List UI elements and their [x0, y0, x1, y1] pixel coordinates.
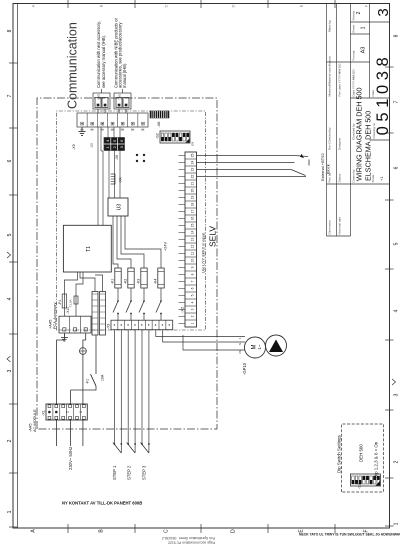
wires T1 to X9 — [97, 127, 99, 225]
terminal block X1 — [46, 404, 87, 420]
dip switch settings box — [342, 424, 384, 492]
comm connector 1 — [93, 93, 110, 109]
relay K4 coil — [158, 268, 164, 288]
comm connector 2 — [114, 93, 131, 109]
wires to external BT52 — [197, 155, 295, 157]
PCB accessory board boundary — [57, 111, 206, 330]
X8 pin header — [150, 111, 169, 118]
wires bars to T1 — [80, 272, 95, 292]
wires U3 to X6 — [108, 151, 110, 199]
supply wires — [56, 420, 58, 446]
cabinet AC-module boundary — [37, 98, 217, 429]
X1 pins — [48, 411, 51, 414]
solder dots — [136, 160, 138, 162]
fold marks — [7, 252, 11, 258]
ground at X10 — [63, 333, 65, 338]
ground at X9 pin1 — [81, 127, 83, 132]
terminal strip X9 — [77, 113, 148, 127]
title block grid — [326, 4, 328, 237]
relay K3 contact — [143, 288, 145, 300]
terminal strip X10 — [59, 316, 91, 333]
transformer T1 — [63, 225, 111, 272]
frame zone ticks left — [67, 524, 69, 533]
fuse F4 — [63, 288, 65, 316]
wires to pump GP10 — [156, 330, 245, 337]
DIP switch S2 — [160, 131, 190, 143]
step 1 contact — [114, 443, 116, 445]
svg-text:Page accommodation PC 9122: Page accommodation PC 9122 — [168, 541, 215, 545]
relay K3 coil — [141, 268, 147, 288]
BT52 switch B — [291, 170, 306, 176]
wires U3 to relay coils — [113, 216, 118, 268]
connector X6 — [104, 138, 125, 151]
dip switch S2 settings graphic — [351, 474, 381, 486]
BT52 switch A — [295, 156, 309, 157]
step control wires — [113, 330, 115, 444]
relay bar B — [100, 292, 106, 336]
breaker F1 10A — [70, 390, 72, 404]
svg-text:Pos Specification Sheet 0510: Pos Specification Sheet 051038-2 — [162, 536, 215, 540]
terminal strip X2 — [185, 152, 197, 327]
connector X4 — [111, 174, 115, 184]
module U3 — [108, 198, 128, 216]
relay K1 contact — [117, 288, 119, 300]
frame zone ticks top — [9, 526, 18, 528]
terminal strip X3 — [111, 320, 173, 330]
motor M 1~ — [245, 337, 266, 358]
step 2 contact — [127, 443, 129, 445]
wire X1 to X10 — [57, 333, 65, 404]
pump symbol — [266, 335, 287, 356]
relay bar A — [92, 292, 98, 336]
wires F4 region to T1 — [64, 272, 77, 288]
relay K4 contact — [160, 288, 162, 300]
wires X6 to X9 — [107, 127, 109, 138]
component F5 — [75, 288, 77, 316]
relay K2 coil — [128, 268, 134, 288]
PE symbol — [82, 355, 84, 405]
svg-text:NECK TATO UL TRWY IS TUN SWLUG: NECK TATO UL TRWY IS TUN SWLUGUT SEKL JG… — [299, 533, 400, 537]
step 3 contact — [141, 443, 143, 445]
relay K1 coil — [115, 268, 121, 288]
frame zone ticks right — [67, 0, 69, 8]
relay K2 contact — [130, 288, 132, 300]
frame zone ticks bottom — [385, 525, 394, 527]
svg-text:NY KONTAKT AV TILL-DK PANEHT 6: NY KONTAKT AV TILL-DK PANEHT 600B — [62, 501, 142, 506]
